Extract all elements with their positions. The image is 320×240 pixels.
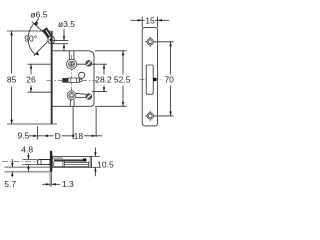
- dimension 52.5 extension bottom: [95, 105, 127, 107]
- actuator bar outline blocks: [68, 78, 79, 83]
- top hub stem: [68, 51, 70, 60]
- bottom hub stem: [69, 100, 71, 107]
- dimension 85 line: [11, 31, 13, 74]
- dimension 52.5 line: [122, 51, 124, 75]
- svg-text:10.5: 10.5: [97, 160, 114, 170]
- svg-text:15: 15: [145, 15, 155, 25]
- horizontal centerline front view: [47, 79, 97, 81]
- small hole: [79, 72, 85, 78]
- dimension 85 extension line top: [7, 30, 51, 32]
- hub centre extension line right: [77, 63, 107, 65]
- dimension 70 extension lines: [155, 41, 174, 43]
- svg-text:70: 70: [164, 75, 174, 85]
- top hub: [67, 59, 77, 69]
- dimension 3.5 line: [63, 29, 65, 41]
- svg-text:ø6.5: ø6.5: [30, 10, 47, 20]
- strike plate top screw: [145, 37, 155, 47]
- strike plate: [142, 28, 157, 126]
- actuator bar dark block: [63, 78, 69, 82]
- svg-text:18: 18: [74, 131, 84, 141]
- dimension 10.5: [94, 148, 96, 157]
- left box: [53, 162, 55, 167]
- dimension 1.3: [42, 183, 50, 185]
- vertical centerline between hubs: [71, 55, 73, 101]
- latch bolt extension lines for 4.8: [22, 159, 37, 161]
- bottom view case: [52, 156, 91, 167]
- svg-text:26: 26: [26, 75, 36, 85]
- projection line spindle: [72, 107, 74, 140]
- extension faceplate bottom for 5.7: [5, 171, 50, 173]
- dimension 70 line: [170, 42, 172, 75]
- faceplate bottom view: [50, 151, 52, 172]
- svg-text:D: D: [55, 131, 61, 141]
- bottom hub arm: [76, 92, 86, 95]
- latch bolt rotated 45deg: [45, 29, 51, 38]
- top slotted screw: [86, 61, 92, 67]
- svg-text:4.8: 4.8: [21, 144, 33, 154]
- latch pivot knob: [48, 36, 54, 44]
- svg-text:52.5: 52.5: [114, 75, 131, 85]
- bottom dimension row 9.5 D 18: [29, 135, 38, 137]
- faceplate front view: [51, 31, 53, 124]
- svg-text:9.5: 9.5: [17, 130, 29, 140]
- dimension 85 extension line bottom: [7, 123, 57, 125]
- case interior top line: [52, 157, 63, 159]
- svg-text:90°: 90°: [24, 33, 37, 43]
- svg-text:5.7: 5.7: [4, 179, 16, 189]
- dimension 4.8: [27, 153, 29, 160]
- dimension 28.2 extension line bottom: [92, 91, 107, 93]
- dimension 10.5 extension lines: [91, 155, 99, 157]
- bottom view centerline: [2, 160, 37, 162]
- dimension 5.7: [11, 159, 13, 167]
- dimension 28.2 line: [103, 64, 105, 74]
- spring box: [63, 162, 65, 167]
- latch swing arc 90 deg upper radial: [32, 22, 51, 39]
- leader for dia 6.5: [35, 19, 39, 24]
- actuator end circle: [79, 79, 82, 82]
- dimension 52.5 extension top: [95, 50, 127, 52]
- projection line case end: [95, 107, 97, 137]
- latch swing dimension arc: [28, 24, 35, 55]
- latch swing arc 90 deg lower radial: [34, 39, 51, 56]
- latch bolt bottom view: [37, 160, 50, 165]
- svg-text:1.3: 1.3: [62, 179, 74, 189]
- svg-text:28.2: 28.2: [95, 75, 112, 85]
- slide band: [54, 159, 87, 161]
- strike plate bottom screw: [145, 111, 155, 121]
- dimension 15 line: [130, 19, 144, 21]
- dimension 26 extension line bottom: [28, 91, 58, 93]
- dimension 1.3 extension lines: [49, 172, 51, 186]
- lock case body: [53, 51, 94, 107]
- end cap line: [89, 156, 91, 167]
- latch tip square in slot: [153, 78, 156, 81]
- dimension 26 line: [30, 64, 32, 74]
- projection line latch tip: [37, 126, 39, 139]
- svg-text:85: 85: [7, 75, 17, 85]
- strike plate slot: [146, 65, 153, 94]
- dimension 15 extension lines: [141, 17, 143, 28]
- dimension 26 extension line top: [28, 63, 51, 65]
- svg-text:ø3.5: ø3.5: [58, 19, 75, 29]
- bottom slotted screw: [86, 94, 92, 100]
- strike plate centerline: [140, 78, 162, 80]
- extension case bottom for 5.7: [5, 166, 53, 168]
- latch pin dia 3.5 lines: [53, 40, 69, 42]
- bottom hub: [67, 91, 76, 100]
